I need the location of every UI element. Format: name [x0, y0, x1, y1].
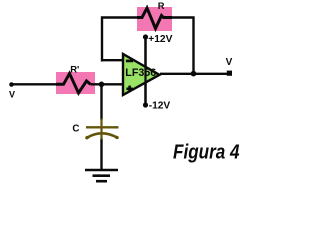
svg-text:R: R [158, 1, 165, 11]
svg-text:V: V [226, 57, 233, 68]
svg-text:V: V [9, 90, 15, 100]
svg-text:C: C [72, 123, 79, 134]
svg-text:LF356: LF356 [125, 67, 156, 79]
svg-text:+12V: +12V [148, 34, 172, 45]
svg-text:-12V: -12V [149, 101, 171, 112]
svg-text:Figura 4: Figura 4 [173, 142, 240, 164]
svg-text:R': R' [70, 65, 79, 76]
